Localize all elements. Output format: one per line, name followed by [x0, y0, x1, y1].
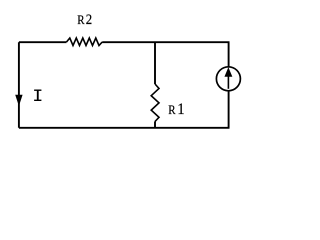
wire middle branch top: [154, 42, 156, 84]
wire bottom rail: [19, 127, 230, 129]
label R1: [168, 101, 184, 118]
wire left branch: [18, 42, 20, 128]
svg-text:R: R: [168, 103, 176, 117]
svg-text:R: R: [77, 13, 85, 27]
wire top-right segment: [102, 41, 229, 43]
svg-text:I: I: [32, 88, 43, 107]
svg-text:2: 2: [86, 12, 92, 28]
svg-text:1: 1: [177, 101, 184, 118]
current source I1: [216, 67, 240, 91]
label I: [32, 88, 43, 107]
resistor R1: [151, 84, 159, 122]
resistor R2: [67, 38, 103, 46]
label R2: [77, 12, 92, 28]
current arrow I (down): [16, 95, 22, 104]
wire middle branch bottom: [154, 122, 156, 128]
wire right branch bottom: [228, 90, 230, 128]
wire top-left segment: [19, 41, 67, 43]
wire right branch top: [228, 42, 230, 67]
